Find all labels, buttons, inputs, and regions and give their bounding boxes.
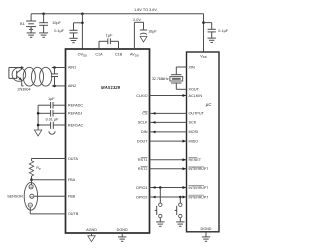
node (DPIO1 / SW1) [159, 186, 162, 189]
svg-text:C1B: C1B [115, 53, 123, 57]
wire REF ground bus [37, 105, 39, 130]
wire CS [150, 112, 187, 115]
svg-text:DGND: DGND [117, 228, 128, 232]
uC pin label XIN [189, 65, 196, 69]
capacitor 0.01uF (REFADJ) [51, 110, 53, 117]
wire SCLK [150, 121, 187, 124]
svg-text:0.1µF: 0.1µF [218, 29, 228, 33]
svg-text:AGND: AGND [86, 228, 97, 232]
uC pin label RESET [189, 158, 202, 162]
svg-text:INTERRUPT: INTERRUPT [189, 195, 210, 199]
ground (DGND) [118, 237, 126, 241]
svg-text:1µF: 1µF [48, 97, 55, 101]
capacitor 0.1uF (uC VDD) [204, 23, 216, 38]
svg-text:OUTA: OUTA [68, 157, 79, 161]
analog ground (AVDD cap) [140, 36, 147, 42]
wire REFADJ [38, 112, 65, 114]
pin label RST2 [138, 167, 148, 171]
svg-text:2.0V: 2.0V [133, 18, 141, 22]
crystal Y1 32.768kHz [170, 67, 187, 89]
wire DPIO2 [150, 196, 187, 199]
wire DOUT [150, 140, 187, 143]
svg-text:AVDD: AVDD [130, 53, 139, 58]
node (REFADJ bus) [37, 112, 40, 115]
wire VDD drop [203, 14, 205, 52]
node (AIN1 cap tap) [53, 66, 56, 69]
capacitor 1uF (C1A-C1B flying) [99, 38, 119, 49]
capacitor 1uF (REFADC) [51, 102, 53, 109]
uC pin label XOUT [189, 88, 200, 92]
uC pin label SCK [189, 121, 197, 125]
wire uC DGND [205, 232, 207, 237]
node (VDD / 0.1uF tap) [202, 21, 205, 24]
node (DPIO2 / SW2) [179, 196, 182, 199]
pin label REFADJ [68, 112, 83, 116]
svg-text:CLKIO: CLKIO [136, 94, 147, 98]
pin label DGND [117, 228, 128, 232]
resistor Rp [29, 161, 33, 176]
svg-text:OUTB: OUTB [68, 212, 79, 216]
svg-text:RST1: RST1 [138, 158, 148, 162]
node (rail / OVDD branch) [81, 13, 84, 16]
pin label CLKIO [136, 94, 147, 98]
svg-text:1µF: 1µF [106, 34, 113, 38]
node (FBA / sensor) [30, 178, 33, 181]
pin label REFDAC [68, 123, 84, 127]
pin label REFADC [68, 104, 84, 108]
capacitor 10uF (AVDD) [148, 29, 157, 33]
capacitor 0.1uF (OVDD) [69, 23, 82, 38]
node (AIN2 cap tap) [53, 85, 56, 88]
svg-text:DPIO2: DPIO2 [136, 195, 147, 199]
wire supply rail 1.8V-3.6V [31, 13, 203, 15]
svg-text:MISO: MISO [189, 139, 199, 143]
svg-text:INTERRUPT: INTERRUPT [189, 186, 210, 190]
label 2.0V [133, 18, 141, 22]
wire REFADC [38, 104, 65, 106]
ground (battery) [27, 33, 36, 37]
svg-text:REFADJ: REFADJ [68, 112, 83, 116]
label 1uF (REFADC) [48, 97, 55, 101]
svg-text:32.768kHz: 32.768kHz [152, 77, 169, 81]
wire FBA [32, 179, 66, 181]
svg-text:0.1µF: 0.1µF [54, 29, 64, 33]
svg-text:10µF: 10µF [148, 29, 157, 33]
pin label FBA [68, 178, 76, 182]
svg-text:DIN: DIN [141, 130, 148, 134]
pin label DPIO1 [136, 186, 147, 190]
wire REFDAC [38, 124, 65, 126]
crystal label 32.768kHz [152, 77, 169, 81]
pin label C1A [95, 53, 103, 57]
sensor (electrochemical cell) [24, 180, 37, 211]
label 1uF (flying cap) [106, 34, 113, 38]
pin label DPIO2 [136, 195, 147, 199]
ground (uC DGND) [202, 237, 210, 241]
pin label DIN [141, 130, 148, 134]
pin label DOUT [137, 139, 148, 143]
IC U1 MAX1329 outline [66, 49, 150, 233]
svg-text:2N3904: 2N3904 [17, 88, 30, 92]
capacitor 10uF (supply) [39, 14, 48, 33]
label 10uF [52, 21, 61, 25]
svg-text:1.8V TO 3.6V: 1.8V TO 3.6V [134, 8, 157, 12]
node (REFDAC bus) [37, 124, 40, 127]
svg-text:XIN: XIN [189, 65, 196, 69]
uC pin label ACLKIN [189, 94, 203, 98]
pin label C1B [115, 53, 123, 57]
analog ground (AGND) [88, 236, 96, 242]
wire FBB [34, 195, 65, 197]
ground (SW1) [156, 222, 164, 226]
svg-text:DGND: DGND [200, 227, 211, 231]
svg-text:CS: CS [142, 112, 148, 116]
wire OVDD drop [81, 14, 83, 49]
ground (0.1uF OVDD) [69, 38, 77, 42]
svg-text:FBA: FBA [68, 178, 76, 182]
uC label [206, 102, 212, 107]
svg-text:RST2: RST2 [138, 167, 148, 171]
svg-text:OUTPUT: OUTPUT [189, 112, 205, 116]
svg-text:DOUT: DOUT [137, 139, 148, 143]
transistor label 2N3904 [17, 88, 30, 92]
svg-text:REFADC: REFADC [68, 104, 84, 108]
pin label OUTA [68, 157, 79, 161]
svg-text:C1A: C1A [95, 53, 103, 57]
pin label FBB [68, 195, 76, 199]
svg-text:REFDAC: REFDAC [68, 123, 84, 127]
svg-text:OVDD: OVDD [78, 53, 87, 58]
svg-text:MOSI: MOSI [189, 130, 199, 134]
uC pin label INTERRUPT 2 [189, 186, 210, 190]
svg-text:MAX1329: MAX1329 [101, 85, 121, 90]
wire RST1-RESET [150, 158, 187, 161]
svg-text:FBB: FBB [68, 195, 76, 199]
net label 1.8V TO 3.6V [134, 8, 157, 12]
pin label AGND [86, 228, 97, 232]
pin label OUTB [68, 212, 79, 216]
IC label MAX1329 [101, 85, 121, 90]
battery B1 [26, 14, 36, 33]
battery label B1 [20, 22, 25, 26]
wire Rp to FBA node [31, 176, 33, 180]
svg-text:WE: WE [29, 187, 33, 189]
node (collector-base tie) [21, 66, 23, 68]
pin label CS [142, 111, 148, 115]
svg-text:RP: RP [36, 166, 41, 171]
svg-text:SCLK: SCLK [138, 121, 148, 125]
svg-text:µC: µC [206, 102, 212, 107]
svg-text:SCK: SCK [189, 121, 197, 125]
svg-text:10µF: 10µF [52, 21, 61, 25]
uC pin label MISO [189, 139, 199, 143]
label 0.01uF [46, 118, 60, 122]
svg-text:DPIO1: DPIO1 [136, 186, 147, 190]
capacitor (AIN1-AIN2) [51, 68, 58, 86]
wire RST2-INTERRUPT [150, 167, 187, 170]
pin label SCLK [138, 121, 148, 125]
wire DIN [150, 131, 187, 134]
pushbutton SW2 [175, 197, 182, 222]
uC pin label OUTPUT [189, 112, 205, 116]
uC outline [187, 52, 220, 232]
svg-text:B1: B1 [20, 22, 25, 26]
svg-text:SENSOR: SENSOR [7, 195, 23, 199]
svg-text:VDD: VDD [200, 55, 207, 60]
uC pin label VDD [200, 55, 207, 60]
wire OUTB [30, 208, 65, 214]
svg-text:INTERRUPT: INTERRUPT [189, 167, 210, 171]
wire CLKIO-ACLKIN [150, 94, 187, 97]
wire DGND [121, 233, 123, 237]
pushbutton SW1 [155, 188, 162, 222]
label 0.1uF (OVDD) [54, 29, 64, 33]
wire AVDD 2.0V branch [134, 22, 147, 49]
svg-text:ACLKIN: ACLKIN [189, 94, 203, 98]
svg-text:0.01 µF: 0.01 µF [46, 118, 60, 122]
wire OUTA [32, 159, 66, 161]
uC pin label DGND [200, 227, 211, 231]
pin label OVDD [78, 53, 87, 58]
pin label AIN1 [68, 66, 76, 70]
node (OVDD / 0.1uF tap) [81, 22, 84, 25]
pin label AVDD [130, 53, 139, 58]
uC pin label INTERRUPT 3 [189, 195, 210, 199]
svg-text:RESET: RESET [189, 158, 202, 162]
wire AGND [91, 233, 93, 236]
label 0.1uF (uC VDD) [218, 29, 228, 33]
pin label AIN2 [68, 84, 76, 88]
uC pin label INTERRUPT 1 [189, 167, 210, 171]
resistor label Rp [36, 166, 41, 171]
sensor label [7, 195, 23, 199]
wire DPIO1 [150, 186, 187, 189]
pin label RST1 [138, 158, 148, 162]
svg-text:RE: RE [30, 196, 34, 198]
analog ground (REF bus) [34, 130, 42, 136]
ground (SW2) [176, 222, 184, 226]
transistor Q1 2N3904 (diode-connected) [9, 68, 26, 83]
svg-text:AIN2: AIN2 [68, 84, 76, 88]
svg-text:AIN1: AIN1 [68, 66, 76, 70]
uC pin label MOSI [189, 130, 199, 134]
twisted pair to AIN1/AIN2 [22, 67, 66, 86]
ground (10uF cap) [39, 33, 48, 37]
ground (0.1uF uC) [208, 38, 216, 42]
capacitor (REFDAC, polarized) [49, 122, 55, 134]
svg-text:CE: CE [29, 205, 33, 207]
svg-text:XOUT: XOUT [189, 88, 200, 92]
node (rail / 10uF cap) [42, 13, 45, 16]
